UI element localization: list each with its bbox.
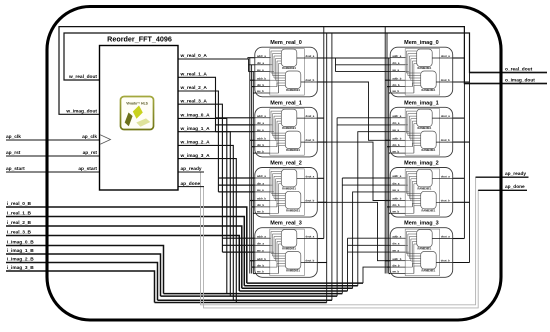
wire w_real_2_A route (178, 91, 218, 192)
svg-text:dout_a: dout_a (441, 54, 450, 58)
wire real b stub (253, 273, 255, 275)
svg-text:RAMB36E1: RAMB36E1 (282, 66, 296, 70)
ram primitive RAMB36E1 B of Mem_real_3 (285, 252, 301, 273)
wire i_imag_0_B (6, 246, 164, 294)
svg-text:RAMB36E1: RAMB36E1 (286, 148, 300, 152)
svg-text:RAMB36E1: RAMB36E1 (282, 247, 296, 251)
clock chevron marker (100, 135, 110, 144)
svg-text:we_a: we_a (391, 189, 399, 192)
wire w_real_1_A route (178, 77, 216, 131)
pin din_a of Mem_imag_3 (390, 242, 405, 246)
pin din_b of Mem_imag_1 (390, 143, 405, 147)
pin addr_b of Mem_imag_2 (390, 197, 405, 201)
wire ap_done route (gray) (178, 187, 527, 308)
pin we_a of Mem_real_3 (255, 249, 270, 252)
wire w_real_3_A stub (222, 244, 254, 246)
net o_imag_dout / w_imag_dout (59, 27, 547, 115)
wire internal bundle of Mem_imag_0 (405, 51, 421, 93)
pin dout_b of Mem_imag_0 (436, 78, 453, 82)
svg-text:addr_a: addr_a (257, 174, 266, 178)
svg-text:i_imag_1_B: i_imag_1_B (7, 248, 34, 254)
wire real dout_a bus (323, 27, 325, 239)
wire w_real_0_A route (178, 58, 255, 59)
svg-text:din_a: din_a (257, 242, 265, 246)
pin we_b of Mem_real_0 (255, 89, 270, 93)
wire gap riser to imag_1 we_a (358, 132, 390, 286)
svg-text:RAMB36E1: RAMB36E1 (286, 208, 300, 212)
wire imag b stub (385, 139, 390, 141)
pin din_b of Mem_real_3 (255, 263, 270, 267)
wire w_imag_0_A drop (178, 118, 227, 293)
svg-text:w_imag_1_A: w_imag_1_A (180, 126, 211, 132)
svg-text:ap_start: ap_start (6, 166, 25, 172)
wire w_real_2_A stub (218, 177, 254, 179)
ram primitive RAMB36E1 B of Mem_real_2 (285, 191, 301, 212)
wire o_real_dout exit (470, 72, 548, 74)
port line ap_ready right (476, 176, 529, 178)
svg-text:ap_done: ap_done (181, 181, 201, 187)
pin addr_a of Mem_real_3 (255, 234, 270, 238)
ram block Mem_real_1 (255, 100, 317, 157)
pin din_b of Mem_imag_0 (390, 83, 405, 87)
svg-text:addr_a: addr_a (392, 234, 401, 238)
svg-text:Reorder_FFT_4096: Reorder_FFT_4096 (107, 35, 172, 44)
svg-text:RAMB36E1: RAMB36E1 (417, 247, 431, 251)
svg-text:i_real_1_B: i_real_1_B (7, 211, 32, 217)
pin dout_b of Mem_imag_2 (436, 198, 453, 202)
svg-text:addr_a: addr_a (257, 54, 266, 58)
wire bus bottom run (247, 282, 363, 284)
svg-text:we_b: we_b (391, 149, 399, 153)
svg-text:w_real_1_A: w_real_1_A (180, 72, 208, 78)
wire w_real_2_A stub (218, 184, 254, 186)
wire real b stub (250, 79, 255, 81)
wire imag dout_b bus (469, 33, 471, 263)
wire real dout_b bus (326, 33, 328, 303)
wire i_real_3_B (6, 236, 239, 292)
svg-text:dout_b: dout_b (441, 259, 450, 263)
svg-text:Mem_real_1: Mem_real_1 (270, 100, 302, 106)
wire ap_start (6, 171, 100, 173)
wire bus bottom run (164, 293, 343, 295)
svg-text:dout_b: dout_b (305, 138, 314, 142)
svg-text:dout_a: dout_a (305, 114, 314, 118)
ram primitive RAMB36E1 A of Mem_imag_0 (417, 49, 433, 70)
pin addr_b of Mem_imag_3 (390, 257, 405, 261)
svg-text:addr_a: addr_a (392, 174, 401, 178)
pin dout_a of Mem_real_1 (297, 114, 318, 118)
wire real dout_a stub (317, 57, 324, 59)
pin din_a of Mem_real_3 (255, 242, 270, 246)
wire bus bottom run (155, 302, 327, 304)
wire w_imag_2_A drop (178, 145, 233, 300)
pin din_b of Mem_real_0 (255, 83, 270, 87)
net o_real_dout / w_real_dout (64, 33, 547, 80)
svg-text:addr_b: addr_b (257, 257, 266, 261)
svg-text:dout_b: dout_b (441, 138, 450, 142)
pin din_a of Mem_real_0 (255, 61, 270, 65)
wire i_imag_3_B (6, 271, 155, 303)
pin we_a of Mem_imag_0 (390, 69, 405, 72)
wire real dout_a stub (317, 177, 324, 179)
wire imag column din_b feed (386, 33, 388, 274)
pin din_b of Mem_imag_2 (390, 203, 405, 207)
wire imag b stub (387, 266, 390, 268)
wire imag dout_b stub (453, 141, 470, 143)
wire real dout_b stub (317, 262, 326, 264)
svg-text:din_b: din_b (257, 263, 265, 267)
pin addr_b of Mem_imag_0 (390, 76, 405, 80)
pin dout_b of Mem_real_2 (301, 198, 318, 202)
svg-text:w_imag_2_A: w_imag_2_A (180, 140, 211, 146)
svg-text:Vivado™ HLS: Vivado™ HLS (126, 101, 148, 105)
ram block Mem_real_0 (255, 40, 317, 97)
wire imag b stub (385, 79, 390, 81)
wire real dout_a stub (317, 238, 324, 240)
pin dout_a of Mem_imag_3 (432, 235, 453, 239)
ram primitive RAMB36E1 B of Mem_imag_2 (421, 191, 437, 212)
pin din_a of Mem_imag_0 (390, 61, 405, 65)
svg-text:RAMB36E1: RAMB36E1 (421, 269, 435, 273)
svg-text:w_real_0_A: w_real_0_A (180, 53, 208, 59)
ram primitive RAMB36E1 B of Mem_imag_0 (421, 71, 437, 92)
pin we_a of Mem_imag_1 (390, 129, 405, 132)
svg-text:addr_b: addr_b (257, 137, 266, 141)
wire ap_rst (6, 155, 100, 157)
svg-text:din_a: din_a (392, 181, 400, 185)
svg-text:ap_clk: ap_clk (6, 134, 21, 140)
svg-text:i_imag_2_B: i_imag_2_B (7, 257, 34, 263)
wire gap riser to imag_2 a-ports (341, 178, 343, 294)
ram primitive RAMB36E1 B of Mem_real_1 (285, 131, 301, 152)
pin addr_a of Mem_real_1 (255, 114, 270, 118)
wire real dout_b stub (317, 141, 326, 143)
svg-text:Mem_imag_2: Mem_imag_2 (404, 161, 439, 167)
wire bus bottom run (239, 290, 347, 292)
wire bus bottom run (242, 287, 353, 289)
pin din_b of Mem_imag_3 (390, 263, 405, 267)
wire imag dout_b stub (453, 81, 470, 83)
ram primitive RAMB36E1 A of Mem_real_0 (281, 49, 297, 70)
wire real b stub (253, 152, 255, 154)
pin din_a of Mem_real_1 (255, 121, 270, 125)
svg-text:we_b: we_b (256, 210, 264, 214)
wire bus bottom run (161, 295, 338, 297)
svg-text:Mem_imag_3: Mem_imag_3 (404, 221, 439, 227)
wire real column addr_b feed (249, 58, 251, 274)
svg-text:ap_start: ap_start (78, 166, 97, 172)
wire internal bundle of Mem_imag_2 (405, 171, 421, 213)
svg-text:ap_ready: ap_ready (181, 166, 202, 172)
wire w_real_1_A stub (216, 124, 255, 126)
ram block Mem_real_2 (255, 161, 317, 218)
svg-text:addr_b: addr_b (392, 257, 401, 261)
svg-text:dout_a: dout_a (441, 235, 450, 239)
wire imag b stub (389, 92, 391, 94)
svg-text:addr_b: addr_b (257, 76, 266, 80)
svg-text:Mem_imag_0: Mem_imag_0 (404, 40, 439, 46)
wire gap riser to imag_3 din_b (363, 267, 390, 283)
wire gap riser to imag_1 a-ports (336, 118, 338, 296)
wire real dout_b stub (317, 201, 326, 203)
wire imag dout_b stub (453, 262, 470, 264)
svg-text:i_real_0_B: i_real_0_B (7, 201, 32, 207)
wire w_real_0_A branch (248, 59, 250, 72)
wire imag b stub (387, 206, 390, 208)
wire internal bundle of Mem_imag_1 (405, 111, 421, 153)
svg-text:we_a: we_a (391, 129, 399, 132)
wire i_imag_2_B (6, 263, 158, 301)
wire w_real_3_A route (178, 104, 222, 252)
svg-text:dout_b: dout_b (305, 259, 314, 263)
wire imag b stub (385, 260, 390, 262)
svg-text:RAMB36E1: RAMB36E1 (421, 148, 435, 152)
wire real_1 dout_b to imag_2 (317, 142, 390, 200)
svg-text:RAMB36E1: RAMB36E1 (286, 88, 300, 92)
svg-text:w_real_2_A: w_real_2_A (180, 85, 208, 91)
pin we_b of Mem_real_1 (255, 149, 270, 153)
pin we_b of Mem_imag_2 (390, 210, 405, 214)
wire real b stub (250, 139, 255, 141)
ram primitive RAMB36E1 A of Mem_imag_2 (417, 169, 433, 190)
wire w_imag_1_A drop (178, 132, 230, 296)
svg-text:din_b: din_b (392, 203, 400, 207)
ram primitive RAMB36E1 A of Mem_real_2 (281, 169, 297, 190)
pin we_b of Mem_real_2 (255, 210, 270, 214)
pin din_b of Mem_real_1 (255, 143, 270, 147)
svg-text:Mem_imag_1: Mem_imag_1 (404, 100, 439, 106)
wire internal bundle of Mem_real_0 (270, 51, 286, 93)
svg-text:we_b: we_b (256, 149, 264, 153)
ram primitive RAMB36E1 A of Mem_real_1 (281, 109, 297, 130)
wire i_real_2_B (6, 226, 242, 288)
pin addr_a of Mem_imag_3 (390, 234, 405, 238)
pin dout_b of Mem_real_3 (301, 259, 318, 263)
svg-text:Mem_real_0: Mem_real_0 (270, 40, 302, 46)
wire imag dout_a stub (453, 117, 465, 119)
wire imag b stub (389, 273, 391, 275)
wire imag column we_b feed (388, 58, 390, 274)
svg-text:din_b: din_b (392, 143, 400, 147)
svg-text:ap_done: ap_done (505, 184, 525, 190)
svg-text:ap_rst: ap_rst (6, 150, 21, 156)
wire real b stub (252, 266, 255, 268)
pin dout_a of Mem_real_3 (297, 235, 318, 239)
svg-text:i_real_2_B: i_real_2_B (7, 220, 32, 226)
wire real b stub (253, 92, 255, 94)
pin dout_b of Mem_real_0 (301, 78, 318, 82)
ram block Mem_imag_3 (390, 221, 453, 278)
wire real b stub (250, 260, 255, 262)
pin dout_a of Mem_imag_2 (432, 174, 453, 178)
svg-text:w_real_3_A: w_real_3_A (180, 98, 208, 104)
svg-text:din_b: din_b (392, 83, 400, 87)
wire w_real_3_A stub (222, 237, 254, 239)
svg-text:RAMB36E1: RAMB36E1 (286, 269, 300, 273)
wire real dout_b stub (317, 81, 326, 83)
svg-text:we_b: we_b (391, 210, 399, 214)
wire imag dout_b stub (453, 201, 470, 203)
svg-text:we_a: we_a (256, 189, 264, 192)
ram block Mem_real_3 (255, 221, 317, 278)
svg-text:din_a: din_a (392, 121, 400, 125)
svg-text:addr_b: addr_b (257, 197, 266, 201)
pin addr_a of Mem_imag_1 (390, 114, 405, 118)
pin din_a of Mem_real_2 (255, 181, 270, 185)
pin ap_done underline (178, 186, 204, 188)
wire internal bundle of Mem_real_1 (270, 111, 286, 153)
wire imag b stub (385, 200, 390, 202)
pin dout_a of Mem_real_2 (297, 174, 318, 178)
svg-text:dout_b: dout_b (305, 78, 314, 82)
pin addr_b of Mem_real_1 (255, 137, 270, 141)
svg-text:we_a: we_a (391, 69, 399, 72)
svg-text:w_real_dout: w_real_dout (68, 74, 97, 80)
svg-text:din_b: din_b (257, 83, 265, 87)
ram block Mem_imag_1 (390, 100, 453, 157)
wire internal bundle of Mem_real_2 (270, 171, 286, 213)
svg-text:addr_a: addr_a (257, 114, 266, 118)
pin addr_b of Mem_real_3 (255, 257, 270, 261)
svg-text:w_imag_dout: w_imag_dout (65, 109, 97, 115)
svg-text:addr_a: addr_a (392, 114, 401, 118)
wire bus bottom run (244, 285, 357, 287)
Vivado HLS logo (121, 97, 154, 130)
pin addr_a of Mem_real_0 (255, 54, 270, 58)
svg-text:i_real_3_B: i_real_3_B (7, 230, 32, 236)
pin din_a of Mem_imag_2 (390, 181, 405, 185)
wire internal bundle of Mem_real_3 (270, 232, 286, 274)
svg-text:RAMB36E1: RAMB36E1 (417, 66, 431, 70)
wire w_real_2_A stub (218, 191, 254, 193)
wire imag column addr_b feed (384, 27, 386, 274)
svg-text:din_a: din_a (392, 61, 400, 65)
wire ap_clk (6, 139, 100, 141)
wire o_imag_dout exit (464, 83, 547, 85)
wire real b stub (252, 86, 255, 88)
pin we_a of Mem_imag_2 (390, 189, 405, 192)
wire real column we_b feed (252, 72, 254, 274)
ram primitive RAMB36E1 B of Mem_imag_1 (421, 131, 437, 152)
svg-text:i_imag_3_B: i_imag_3_B (7, 265, 34, 271)
wire i_imag_1_B (6, 254, 161, 296)
pin we_b of Mem_real_3 (255, 270, 270, 274)
wire imag b stub (389, 212, 391, 214)
pin ap_ready underline (178, 171, 204, 173)
svg-text:addr_b: addr_b (392, 137, 401, 141)
pin we_a of Mem_imag_3 (390, 249, 405, 252)
wire ap_ready route (gray) (178, 172, 529, 305)
ram primitive RAMB36E1 A of Mem_imag_3 (417, 230, 433, 251)
svg-text:RAMB36E1: RAMB36E1 (282, 186, 296, 190)
svg-text:ap_ready: ap_ready (505, 171, 526, 177)
svg-text:RAMB36E1: RAMB36E1 (417, 186, 431, 190)
svg-text:dout_a: dout_a (441, 174, 450, 178)
pin we_b of Mem_imag_0 (390, 89, 405, 93)
svg-text:din_a: din_a (257, 181, 265, 185)
svg-text:dout_b: dout_b (305, 198, 314, 202)
svg-text:we_b: we_b (256, 89, 264, 93)
svg-text:we_a: we_a (256, 249, 264, 252)
chip boundary border (47, 7, 501, 321)
pin addr_b of Mem_imag_1 (390, 137, 405, 141)
svg-text:ap_rst: ap_rst (83, 150, 98, 156)
wire imag b stub (389, 152, 391, 154)
svg-text:i_imag_0_B: i_imag_0_B (7, 240, 34, 246)
svg-text:we_a: we_a (256, 129, 264, 132)
svg-text:w_imag_0_A: w_imag_0_A (180, 113, 211, 119)
pin we_b of Mem_imag_1 (390, 149, 405, 153)
pin addr_a of Mem_imag_0 (390, 54, 405, 58)
ram primitive RAMB36E1 A of Mem_real_3 (281, 230, 297, 251)
svg-text:w_imag_3_A: w_imag_3_A (180, 153, 211, 159)
svg-text:dout_a: dout_a (305, 54, 314, 58)
pin dout_b of Mem_real_1 (301, 138, 318, 142)
wire gap riser to imag_3 a-ports (347, 238, 349, 291)
wire internal bundle of Mem_imag_3 (405, 232, 421, 274)
svg-text:we_b: we_b (391, 270, 399, 274)
pin dout_a of Mem_imag_1 (432, 114, 453, 118)
wire imag_0 din_a feed (335, 58, 337, 72)
port line ap_done right (478, 189, 527, 191)
svg-text:Mem_real_2: Mem_real_2 (270, 161, 302, 167)
wire w_real_3_A stub (222, 251, 254, 253)
svg-text:o_imag_dout: o_imag_dout (505, 77, 535, 83)
ram primitive RAMB36E1 B of Mem_imag_3 (421, 252, 437, 273)
ram block Mem_imag_2 (390, 161, 453, 218)
svg-text:Mem_real_3: Mem_real_3 (270, 221, 302, 227)
wire w_imag_3_A drop (178, 159, 236, 303)
svg-text:din_b: din_b (392, 263, 400, 267)
pin we_a of Mem_real_2 (255, 189, 270, 192)
pin addr_a of Mem_real_2 (255, 174, 270, 178)
wire i_real_1_B (6, 217, 244, 286)
svg-text:dout_a: dout_a (305, 235, 314, 239)
svg-text:RAMB36E1: RAMB36E1 (282, 126, 296, 130)
svg-text:addr_a: addr_a (392, 54, 401, 58)
wire w_real_1_A stub (216, 117, 255, 119)
wire real b stub (252, 206, 255, 208)
svg-text:dout_a: dout_a (441, 114, 450, 118)
wire w_real_1_A stub (216, 131, 255, 133)
pin we_a of Mem_real_0 (255, 69, 270, 72)
svg-text:addr_b: addr_b (392, 76, 401, 80)
wire imag dout_a bus (463, 27, 465, 239)
svg-text:o_real_dout: o_real_dout (505, 66, 533, 72)
svg-text:din_a: din_a (257, 61, 265, 65)
pin dout_a of Mem_imag_0 (432, 54, 453, 58)
svg-text:we_a: we_a (256, 69, 264, 72)
wire real b stub (252, 146, 255, 148)
wire imag dout_a stub (453, 177, 465, 179)
pin din_a of Mem_imag_1 (390, 121, 405, 125)
pin we_a of Mem_real_1 (255, 129, 270, 132)
svg-text:RAMB36E1: RAMB36E1 (421, 208, 435, 212)
op module Reorder_FFT_4096 U1 (100, 35, 179, 191)
svg-text:we_a: we_a (391, 249, 399, 252)
wire imag b stub (387, 86, 390, 88)
wire imag dout_a stub (453, 57, 465, 59)
ram block Mem_imag_0 (390, 40, 453, 97)
wire real b stub (253, 212, 255, 214)
pin addr_b of Mem_real_0 (255, 76, 270, 80)
pin dout_a of Mem_real_0 (297, 54, 318, 58)
pin we_b of Mem_imag_3 (390, 270, 405, 274)
wire bus bottom run (158, 299, 332, 301)
wire real_0 dout_a across gap (317, 57, 390, 59)
svg-text:din_a: din_a (257, 121, 265, 125)
wire gap riser to imag_2 we_a (353, 192, 391, 288)
